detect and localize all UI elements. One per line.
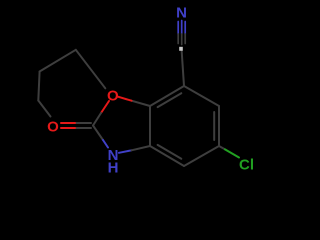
node: sp carbon marker dot [179,47,183,51]
wire: bond N3-C3a blue half [119,150,132,153]
wire: carbonyl C2=O lower line dark half [77,127,92,129]
wire: bond C2-N3 blue half [103,140,108,148]
wire: fused edge C3a-C7a [149,106,151,146]
wire: carbonyl C2=O upper line red half [61,122,77,124]
wire: nitrile triple bond line right dark half [184,34,186,44]
wire: bond C7a-O1 red half [118,97,132,101]
svg-text:O: O [107,88,119,105]
wire: nitrile triple bond line left dark half [177,34,179,44]
wire: bond C7 to nitrile carbon [182,52,184,87]
wire: carbonyl C2=O lower line red half [61,127,77,129]
wire: nitrile triple bond line center dark half [181,34,183,45]
wire: benzene inner double line C6=C5 [213,112,215,140]
wire: benzene inner double line C7a=C7 [158,93,182,107]
wire: chain bond O1 to V1 [76,50,106,89]
wire: benzene inner double line C4=C3a [158,145,182,159]
wire: chain bond V3 to carbonyl O [38,101,50,117]
wire: benzene edge C5-C4 [184,146,219,166]
wire: carbonyl C2=O upper line dark half [77,122,92,124]
wire: bond O1-C2 red half [101,101,109,113]
wire: benzene edge C6-C5 [218,106,220,146]
wire: chain bond V2 to V3 [38,72,39,101]
wire: benzene edge C7-C6 [184,86,219,106]
wire: bond C7a-O1 dark half [132,101,151,106]
svg-text:N: N [176,4,187,21]
wire: nitrile triple bond line left blue half [177,22,179,35]
wire: bond C2-N3 dark half [93,126,103,141]
wire: bond C5-Cl dark half [219,146,225,149]
wire: nitrile triple bond line center blue half [181,21,183,35]
svg-text:Cl: Cl [239,156,254,173]
wire: benzene edge C7a-C7 [150,86,184,106]
wire: benzene edge C4-C3a [150,146,184,166]
wire: bond O1-C2 dark half [93,113,101,126]
wire: chain bond V1 to V2 [40,50,76,72]
svg-text:H: H [108,159,119,176]
wire: nitrile triple bond line right blue half [184,22,186,35]
wire: bond C5-Cl green half [225,149,239,157]
svg-text:O: O [47,118,59,135]
wire: bond N3-C3a dark half [132,146,151,150]
